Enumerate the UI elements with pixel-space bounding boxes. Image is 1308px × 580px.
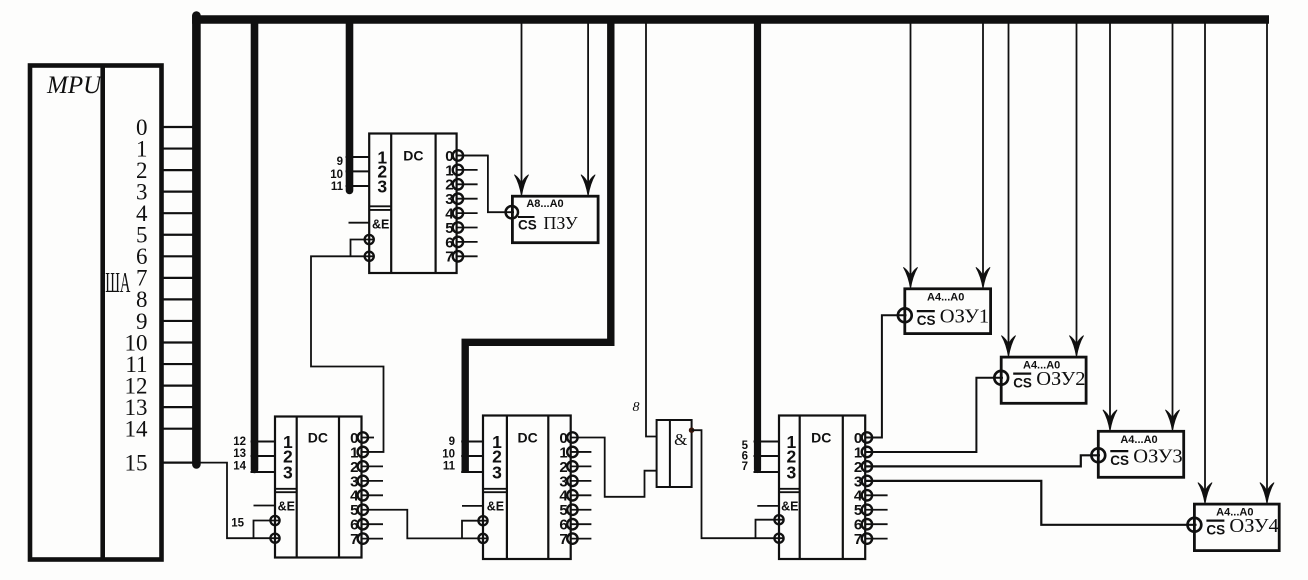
address line 7 (MPU pin) — [136, 266, 196, 291]
wire DC1 output 1 to DC2 enable — [311, 240, 384, 452]
svg-text:&E: &E — [781, 500, 798, 514]
address line 10 (MPU pin) — [125, 330, 197, 355]
wire DC1 output 5 to DC3 enable — [362, 510, 489, 539]
RAM chip ОЗУ4 — [1188, 504, 1280, 550]
address line 13 (MPU pin) — [125, 395, 197, 420]
svg-text:11: 11 — [331, 181, 344, 193]
svg-text:CS: CS — [1013, 375, 1032, 390]
wire AND output to DC4 enable — [692, 430, 785, 538]
svg-text:&E: &E — [372, 218, 389, 232]
svg-text:&E: &E — [278, 500, 295, 514]
svg-text:15: 15 — [231, 518, 244, 530]
svg-text:7: 7 — [742, 461, 748, 473]
DC3 outputs 0-7 — [559, 430, 591, 548]
address line 5 (MPU pin) — [136, 223, 196, 248]
address line 6 (MPU pin) — [136, 244, 196, 269]
svg-text:&: & — [674, 430, 687, 449]
DC2 inputs 1-3 (pins 9,10,11) — [330, 147, 387, 196]
svg-text:А4...А0: А4...А0 — [927, 291, 964, 303]
decoder DC2 body — [369, 134, 456, 274]
address bus (top horizontal) — [192, 15, 1269, 24]
svg-text:DC: DC — [308, 430, 328, 446]
address line 2 (MPU pin) — [136, 158, 196, 183]
address line 9 (MPU pin) — [136, 309, 196, 334]
decoder DC1 body — [275, 417, 362, 558]
RAM chip ОЗУ3 — [1091, 431, 1183, 477]
address line 15 (MPU pin) — [125, 450, 197, 475]
svg-text:14: 14 — [125, 417, 149, 442]
svg-text:10: 10 — [442, 449, 455, 461]
wire DC3 output 0 to AND gate input — [571, 438, 657, 497]
address lines into RAM2 (arrow B) — [1076, 20, 1078, 346]
svg-text:А8...А0: А8...А0 — [526, 198, 563, 210]
svg-text:3: 3 — [283, 462, 293, 482]
svg-text:ОЗУ4: ОЗУ4 — [1229, 515, 1278, 537]
svg-text:CS: CS — [518, 218, 537, 233]
address line 12 (MPU pin) — [125, 373, 197, 398]
svg-text:А4...А0: А4...А0 — [1120, 434, 1157, 446]
wire DC4 output 2 to RAM3 CS — [865, 455, 1100, 466]
DC3 inputs 1-3 (pins 9,10,11) — [442, 432, 502, 483]
DC2 outputs 0-7 — [445, 148, 488, 266]
wire A15 to DC1 enable — [196, 463, 280, 539]
AND gate U1 body — [657, 420, 692, 487]
address lines into RAM3 (arrow A) — [1109, 20, 1111, 420]
svg-text:&E: &E — [487, 500, 504, 514]
svg-text:CS: CS — [1206, 522, 1225, 537]
RAM chip ОЗУ1 — [898, 289, 991, 334]
svg-text:15: 15 — [125, 450, 148, 475]
svg-text:11: 11 — [443, 460, 456, 472]
svg-text:ОЗУ1: ОЗУ1 — [940, 305, 989, 327]
svg-text:ПЗУ: ПЗУ — [543, 213, 578, 233]
svg-text:13: 13 — [233, 448, 246, 460]
bus riser along MPU — [192, 16, 201, 465]
bus drop to decoder DC2 — [346, 20, 354, 191]
svg-text:10: 10 — [330, 169, 343, 181]
wire DC4 output 0 to RAM1 CS — [865, 315, 906, 437]
address line 14 (MPU pin) — [125, 417, 197, 442]
MPU block — [30, 66, 162, 560]
svg-text:ОЗУ3: ОЗУ3 — [1133, 445, 1182, 467]
address lines into RAM4 (arrow B) — [1266, 20, 1268, 493]
address bus label ША — [105, 267, 130, 298]
svg-text:DC: DC — [403, 148, 423, 164]
decoder DC3 body — [483, 416, 571, 560]
DC1 inputs 1-3 (pins 12,13,14) — [233, 432, 293, 483]
address lines into ROM (arrow B) — [587, 20, 589, 185]
svg-text:3: 3 — [786, 462, 796, 482]
address line 1 (MPU pin) — [136, 136, 196, 161]
address lines into RAM1 (arrow A) — [910, 20, 912, 277]
svg-text:DC: DC — [811, 430, 831, 446]
svg-text:9: 9 — [337, 156, 343, 168]
wire DC4 output 3 to RAM4 CS — [865, 481, 1196, 525]
svg-text:ОЗУ2: ОЗУ2 — [1036, 368, 1085, 390]
DC1 enable block &E (pin 15) — [231, 500, 295, 543]
address line 0 (MPU pin) — [136, 115, 196, 140]
address line 4 (MPU pin) — [136, 201, 196, 226]
svg-text:8: 8 — [633, 400, 640, 415]
svg-text:3: 3 — [492, 462, 502, 482]
address lines into RAM3 (arrow B) — [1172, 20, 1174, 420]
svg-text:14: 14 — [233, 461, 246, 473]
DC2 enable block &E — [349, 218, 390, 261]
DC1 outputs 0-7 — [350, 430, 383, 548]
address line 8 (MPU pin) — [136, 287, 196, 312]
svg-text:12: 12 — [233, 436, 246, 448]
wire DC4 output 1 to RAM2 CS — [865, 378, 1003, 452]
address lines into RAM4 (arrow A) — [1204, 20, 1206, 493]
address lines into RAM1 (arrow B) — [982, 20, 984, 277]
RAM chip ОЗУ2 — [994, 357, 1086, 403]
junction at AND gate output — [689, 427, 695, 433]
bus drop to decoder DC4 — [754, 20, 761, 470]
bus drop to decoder DC3 (jogged) — [465, 20, 611, 473]
DC4 inputs 1-3 (pins 5,6,7) — [742, 432, 797, 483]
svg-text:DC: DC — [517, 430, 537, 446]
address line 11 (MPU pin) — [125, 352, 196, 377]
DC4 outputs 0-7 — [854, 430, 888, 548]
address line 8 to AND gate — [633, 20, 657, 437]
svg-text:CS: CS — [917, 313, 936, 328]
decoder DC4 body — [779, 416, 865, 560]
wire DC2 output 0 to ROM CS — [457, 156, 514, 213]
address lines into ROM (arrow A) — [521, 20, 523, 185]
svg-text:9: 9 — [449, 436, 455, 448]
address lines into RAM2 (arrow A) — [1008, 20, 1010, 346]
ROM chip ПЗУ — [506, 196, 599, 243]
svg-text:3: 3 — [377, 176, 387, 196]
address line 3 (MPU pin) — [136, 179, 196, 204]
svg-text:ША: ША — [105, 267, 130, 298]
svg-text:MPU: MPU — [46, 72, 103, 99]
svg-text:CS: CS — [1110, 453, 1129, 468]
DC4 enable block &E — [757, 500, 798, 543]
bus drop to decoder DC1 — [251, 20, 259, 470]
DC3 enable block &E — [462, 500, 504, 544]
